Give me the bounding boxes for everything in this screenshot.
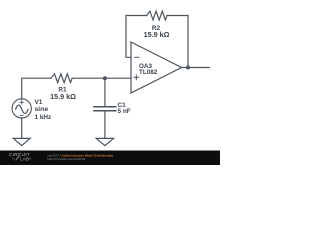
wire: R1 right to node A <box>74 77 105 79</box>
branding bar <box>0 151 220 166</box>
svg-text:V1: V1 <box>35 99 43 106</box>
wire: node A down to C1 top plate <box>104 78 106 106</box>
resistor R2 <box>147 11 169 20</box>
resistor R1 <box>51 74 74 83</box>
wire: inverting input stub and feedback left leg <box>126 16 147 58</box>
svg-text:http://circuitlab.com/c2e3zb3: http://circuitlab.com/c2e3zb3 <box>47 157 85 161</box>
wire: V1 top to R1 left <box>22 78 51 99</box>
voltage source V1 (sine) <box>12 99 31 118</box>
svg-text:TL082: TL082 <box>139 69 158 76</box>
branding text <box>47 154 113 162</box>
ground (V1) <box>13 138 30 145</box>
wire: C1 bottom plate to ground <box>104 111 106 138</box>
wire: feedback right leg to output node B <box>169 16 188 68</box>
svg-text:sine: sine <box>35 106 49 113</box>
node B junction dot <box>186 66 190 70</box>
svg-text:5 nF: 5 nF <box>118 108 131 115</box>
node A junction dot <box>103 76 107 80</box>
svg-text:LAB: LAB <box>20 157 29 162</box>
ground (C1) <box>96 138 113 145</box>
wire: V1 bottom to ground <box>21 118 23 139</box>
wire: node A to op-amp non-inverting input <box>105 77 131 79</box>
svg-text:15.9 kΩ: 15.9 kΩ <box>50 92 76 101</box>
capacitor C1 <box>93 107 117 111</box>
op-amp OA3 TL082 <box>131 42 182 93</box>
wire: op-amp output <box>182 67 210 69</box>
svg-text:15.9 kΩ: 15.9 kΩ <box>144 30 170 39</box>
svg-text:1 kHz: 1 kHz <box>35 114 52 121</box>
